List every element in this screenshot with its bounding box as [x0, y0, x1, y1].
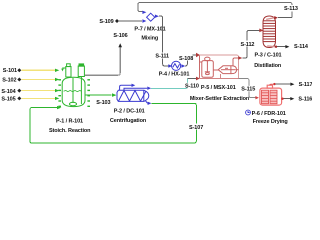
- svg-text:S-103: S-103: [96, 100, 110, 106]
- wire S-103 green: [86, 94, 112, 96]
- svg-text:S-106: S-106: [113, 33, 127, 39]
- wire S-115 gray path: [239, 79, 256, 98]
- wire S-105 yellow: [22, 97, 56, 99]
- arrow S-116: [290, 97, 294, 100]
- mixer MX-101: [147, 13, 155, 21]
- arrow out of HX-101: [181, 64, 185, 68]
- svg-text:S-114: S-114: [294, 44, 309, 50]
- svg-text:S-101: S-101: [3, 68, 17, 74]
- label Distillation: [254, 63, 282, 69]
- label S-116: [298, 97, 312, 103]
- svg-text:P-4 / HX-101: P-4 / HX-101: [159, 72, 190, 78]
- arrow S-110: [147, 87, 151, 90]
- wire S-104 yellow: [22, 90, 56, 92]
- svg-text:S-115: S-115: [241, 86, 255, 92]
- reactor R-101 vessel: [62, 77, 85, 107]
- label S-117: [299, 82, 313, 88]
- label S-103: [96, 100, 110, 106]
- wire S-108 elbow: [185, 55, 196, 66]
- label S-110: [184, 83, 199, 90]
- label S-114: [294, 44, 309, 50]
- node S-104 dot: [17, 89, 21, 93]
- label Stoich. Reaction: [49, 128, 91, 134]
- node S-102 dot: [17, 78, 21, 82]
- freeze dryer FDR-101: [260, 85, 282, 105]
- arrow S-117: [290, 83, 294, 86]
- node S-109 source dot: [115, 19, 119, 23]
- label S-112: [240, 41, 255, 48]
- wire S-109: [119, 20, 142, 22]
- arrow S-104: [55, 89, 59, 92]
- arrow out of mixer: [155, 15, 159, 18]
- svg-text:S-104: S-104: [1, 89, 16, 95]
- label S-115: [241, 86, 257, 93]
- label S-104: [1, 89, 16, 95]
- arrow S-107 into reactor: [57, 106, 61, 109]
- svg-text:Mixing: Mixing: [141, 36, 158, 42]
- arrow into mixer bottom: [142, 19, 146, 22]
- label Freeze Drying: [253, 119, 288, 125]
- wire S-117 black: [276, 83, 291, 85]
- svg-text:P-2 / DC-101: P-2 / DC-101: [114, 109, 145, 115]
- wire S-110 teal: [151, 79, 187, 89]
- wire S-111: [159, 16, 169, 66]
- wire pink S-108 routing top: [200, 55, 239, 79]
- label S-101: [3, 68, 17, 74]
- label Centrifugation: [110, 118, 147, 124]
- arrow S-112 into column: [259, 29, 263, 33]
- label P-3 / C-101: [254, 53, 281, 59]
- MSX connector wire: [213, 69, 219, 71]
- MSX settler vessel: [218, 66, 236, 74]
- label S-105: [1, 97, 15, 103]
- label P-6 / FDR-101: [252, 111, 286, 117]
- label S-107: [189, 124, 204, 131]
- svg-text:P-3 / C-101: P-3 / C-101: [254, 53, 281, 59]
- label S-108: [179, 55, 194, 63]
- node S-105 dot: [17, 96, 21, 100]
- wire S-112 settler top out: [233, 58, 238, 66]
- svg-text:S-105: S-105: [1, 97, 15, 103]
- svg-text:S-107: S-107: [189, 125, 203, 131]
- label S-106: [113, 33, 127, 39]
- arrow S-106 up: [118, 43, 122, 47]
- arrow S-101: [55, 69, 59, 72]
- svg-text:Freeze Drying: Freeze Drying: [253, 119, 288, 125]
- label S-113: [283, 5, 300, 12]
- label P-1 / R-101: [56, 118, 83, 124]
- node S-101 dot: [17, 68, 21, 72]
- wire S-101 yellow: [22, 69, 56, 71]
- clock icon P-6: [246, 110, 251, 115]
- arrow centrifuge vent: [132, 84, 136, 87]
- wire S-110 blue start: [124, 88, 147, 90]
- freeze dryer shelves right: [270, 90, 277, 104]
- label P-2 / DC-101: [114, 109, 145, 115]
- label P-7 / MX-101: [134, 26, 165, 32]
- wire S-117: [270, 84, 273, 85]
- svg-text:S-110: S-110: [185, 83, 199, 89]
- arrow S-108 into MSX feed line: [196, 53, 200, 57]
- svg-text:P-1 / R-101: P-1 / R-101: [56, 118, 83, 124]
- svg-text:S-111: S-111: [155, 53, 169, 59]
- wire column top out red: [266, 18, 274, 20]
- arrow into centrifuge: [112, 93, 116, 96]
- wire S-113 recycle top line: [138, 3, 292, 18]
- label S-111: [155, 53, 169, 60]
- svg-text:Distillation: Distillation: [254, 63, 282, 69]
- wire S-110 black tick: [188, 78, 197, 80]
- svg-text:Mixer-Settler Extraction: Mixer-Settler Extraction: [190, 96, 250, 102]
- arrow S-103: [112, 93, 116, 96]
- label Mixer-Settler Extraction: [190, 96, 250, 102]
- wire S-107 green loop: [30, 103, 196, 143]
- svg-text:S-117: S-117: [299, 82, 312, 88]
- arrow into MSX bottom: [196, 77, 200, 81]
- node S-114 red dot: [275, 46, 277, 48]
- label S-109: [99, 19, 113, 25]
- svg-text:S-109: S-109: [99, 19, 113, 25]
- label Mixing: [141, 36, 158, 42]
- svg-text:S-113: S-113: [284, 6, 298, 12]
- reactor condenser attachment: [66, 64, 71, 77]
- svg-text:Centrifugation: Centrifugation: [110, 118, 147, 124]
- wire red under MSX: [200, 74, 239, 79]
- arrow S-107 blue: [148, 102, 152, 105]
- svg-text:S-112: S-112: [241, 42, 255, 48]
- distillation column C-101: [263, 16, 276, 48]
- freeze dryer shelves left: [262, 90, 269, 104]
- wire S-107 blue start: [146, 101, 148, 103]
- wire red MSX left port down: [199, 56, 201, 79]
- arrow S-105: [55, 97, 59, 100]
- svg-text:P-6 / FDR-101: P-6 / FDR-101: [252, 111, 286, 117]
- heat exchanger HX-101: [172, 61, 181, 70]
- svg-text:S-102: S-102: [2, 78, 16, 84]
- arrow into HX-101: [168, 64, 172, 68]
- arrow S-115 into dryer: [255, 96, 259, 99]
- wire S-112 black elbow: [242, 30, 259, 58]
- wire S-114 red curve: [267, 45, 275, 48]
- MSX tank vessel: [200, 57, 239, 77]
- arrow into mixer top: [142, 11, 146, 14]
- wire S-113 black to corner: [278, 16, 292, 18]
- centrifuge DC-101 body: [117, 90, 149, 101]
- wire S-114 black: [277, 46, 285, 48]
- reactor jacket ticks left: [58, 80, 61, 107]
- wire centrifuge vent blue: [120, 85, 132, 90]
- arrow S-114: [285, 45, 289, 48]
- wire S-102 yellow: [22, 79, 56, 81]
- wire S-116: [281, 98, 283, 100]
- reactor jacket ticks right: [87, 80, 90, 107]
- svg-text:S-116: S-116: [298, 97, 312, 103]
- arrow S-102: [55, 78, 59, 81]
- reactor condenser vent arrow: [61, 68, 66, 71]
- label P-4 / HX-101: [159, 72, 190, 78]
- wire S-116 black: [284, 98, 291, 100]
- svg-text:P-7 / MX-101: P-7 / MX-101: [134, 26, 165, 32]
- arrow S-113 red: [274, 16, 278, 19]
- svg-text:S-108: S-108: [179, 56, 193, 62]
- svg-text:Stoich. Reaction: Stoich. Reaction: [49, 128, 91, 134]
- node S-117 red dot: [273, 83, 275, 85]
- reactor feed port cylinder: [78, 64, 84, 77]
- label S-102: [2, 78, 16, 84]
- arrow S-112 red: [238, 56, 242, 60]
- wire S-106 gray: [85, 47, 120, 75]
- svg-text:P-5 / MSX-101: P-5 / MSX-101: [201, 85, 236, 91]
- label P-5 / MSX-101: [201, 85, 236, 91]
